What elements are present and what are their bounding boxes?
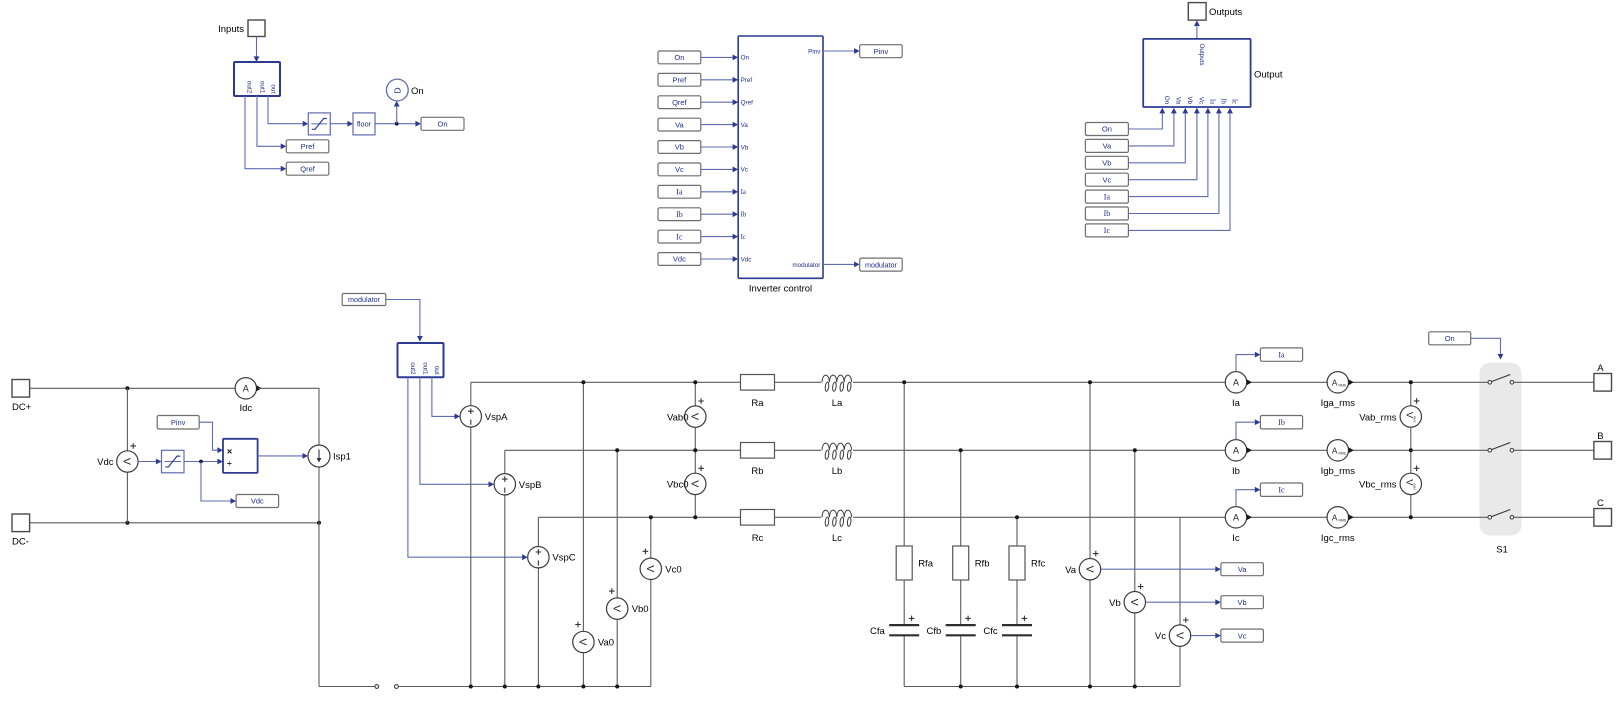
junction bus / Va meter: [1088, 685, 1092, 689]
ground bus middle segment: [398, 686, 651, 688]
svg-text:A: A: [1332, 513, 1338, 522]
junction after floor: [395, 122, 399, 126]
wire Ic to Output block port: [1128, 108, 1233, 231]
arrow into On tag: [415, 121, 421, 127]
svg-text:RMS: RMS: [1339, 384, 1347, 388]
goto tag Pref: [286, 140, 329, 153]
svg-text:La: La: [832, 398, 843, 409]
wire divide to Isp1: [258, 453, 309, 459]
voltmeter Va0: [573, 622, 614, 653]
wire Ia meter to tag: [1236, 352, 1260, 372]
goto tag Qref: [286, 162, 329, 175]
svg-text:Va: Va: [1103, 142, 1112, 151]
svg-text:Igc_rms: Igc_rms: [1321, 533, 1355, 544]
arrow into divide lower input: [217, 459, 223, 465]
wire VspA bottom: [470, 427, 472, 687]
rms ammeter Igb_rms: [1321, 440, 1356, 477]
svg-text:Ib: Ib: [1278, 418, 1285, 427]
wire switch to port A: [1514, 381, 1594, 383]
svg-text:Vb: Vb: [675, 143, 684, 152]
svg-text:Inputs: Inputs: [218, 24, 244, 35]
svg-text:Vab_rms: Vab_rms: [1359, 412, 1397, 423]
svg-text:Va0: Va0: [598, 638, 614, 649]
capacitor Cfa: [870, 616, 919, 637]
switch S1 contacts and blades: [1488, 375, 1514, 556]
svg-text:out1: out1: [422, 362, 429, 375]
from tag modulator: [342, 294, 386, 306]
svg-text:On: On: [1445, 334, 1455, 343]
floor block: [353, 113, 375, 135]
svg-text:RMS: RMS: [1412, 483, 1416, 490]
svg-text:V: V: [121, 458, 133, 465]
svg-text:Isp1: Isp1: [333, 452, 351, 463]
wire Pref into inverter control: [701, 77, 738, 83]
svg-text:Qref: Qref: [741, 100, 753, 107]
svg-text:On: On: [674, 53, 684, 62]
voltmeter Vbc0: [667, 466, 706, 495]
wire Isp1 down to ground bus: [318, 467, 320, 687]
junction DC- / Isp1: [317, 521, 321, 525]
svg-text:Ia: Ia: [1278, 350, 1285, 359]
svg-text:Vb: Vb: [1102, 159, 1111, 168]
svg-text:A: A: [243, 384, 249, 394]
svg-text:A: A: [1233, 378, 1239, 388]
resistor Rfb: [953, 546, 990, 580]
subsystem Output: [1143, 39, 1283, 107]
port DC+: [12, 380, 32, 413]
junction bus / Cfb: [959, 685, 963, 689]
wire DC+ to ammeter Idc: [30, 387, 236, 389]
wire Ia to Output block port: [1128, 108, 1210, 197]
svg-text:Va: Va: [741, 122, 749, 129]
phase B wire: [505, 449, 1488, 451]
wire Vdc meter branch bottom: [126, 472, 128, 523]
svg-text:Igb_rms: Igb_rms: [1321, 466, 1356, 477]
junction phase A / Rfa: [902, 380, 906, 384]
svg-text:Va: Va: [1065, 565, 1077, 576]
wire Va meter to tag: [1101, 566, 1221, 572]
goto tag Pinv: [860, 45, 903, 58]
svg-text:Rfc: Rfc: [1031, 559, 1046, 570]
capacitor Cfb: [927, 616, 976, 637]
svg-text:÷: ÷: [227, 458, 232, 468]
svg-text:D: D: [393, 87, 403, 93]
svg-text:Vb: Vb: [741, 144, 749, 151]
rms ammeter Igc_rms: [1321, 507, 1355, 544]
subsystem Inverter control: [738, 36, 823, 294]
svg-text:Pref: Pref: [673, 76, 688, 85]
svg-text:A: A: [1332, 446, 1338, 455]
from tag Ia (output column): [1085, 190, 1128, 203]
svg-text:Vc: Vc: [1238, 631, 1247, 640]
from tag Vb (output column): [1085, 156, 1128, 169]
svg-text:Rfa: Rfa: [918, 559, 934, 570]
wire VspB bottom: [504, 495, 506, 687]
svg-text:Vab0: Vab0: [667, 412, 688, 423]
svg-text:DC-: DC-: [12, 536, 29, 547]
svg-text:V: V: [644, 565, 656, 572]
svg-text:VspA: VspA: [485, 412, 508, 423]
svg-text:Vb0: Vb0: [632, 604, 649, 615]
wire Va meter branch: [1089, 382, 1091, 686]
goto tag Va: [1221, 563, 1264, 576]
wire Va into inverter control: [701, 122, 738, 128]
wire Vc0 branch: [650, 517, 652, 686]
svg-text:Ia: Ia: [1104, 192, 1111, 201]
junction DC+ / Vdc branch: [125, 386, 129, 390]
rms voltmeter Vbc_rms: [1359, 466, 1421, 495]
svg-text:Ia: Ia: [676, 188, 683, 197]
svg-text:RMS: RMS: [1339, 519, 1347, 523]
from tag Pref (inverter control input): [658, 73, 701, 86]
junction bus / VspB: [503, 685, 507, 689]
wire Ic into inverter control: [701, 234, 738, 240]
port DC-: [12, 514, 30, 547]
wire junction to Vdc tag: [201, 462, 236, 504]
from tag Ib (output column): [1085, 207, 1128, 220]
controlled voltage source VspA: [460, 406, 508, 427]
wire Cfb bottom: [960, 635, 962, 686]
svg-text:On: On: [741, 55, 750, 62]
wire Ib to Output block port: [1128, 108, 1221, 214]
voltmeter Vdc: [97, 443, 138, 472]
from tag Ic (output column): [1085, 224, 1128, 237]
port A: [1594, 363, 1612, 391]
goto tag Ia: [1260, 348, 1302, 361]
wire junction up to scope On: [396, 105, 398, 124]
junction phase A / Vab0: [693, 380, 697, 384]
svg-text:Vbc_rms: Vbc_rms: [1359, 480, 1397, 491]
junction bus / VspC: [536, 685, 540, 689]
svg-text:Va: Va: [1175, 97, 1182, 105]
from tag On (inverter control input): [658, 51, 701, 64]
svg-text:On: On: [1163, 96, 1170, 105]
wire Vc meter to tag: [1191, 633, 1221, 639]
svg-text:Vb: Vb: [1238, 598, 1247, 607]
svg-text:Ib: Ib: [1104, 209, 1111, 218]
controlled voltage source VspB: [494, 474, 541, 495]
from tag Ia (inverter control input): [658, 185, 701, 198]
svg-text:Lb: Lb: [832, 466, 843, 477]
svg-text:Ib: Ib: [676, 210, 683, 219]
svg-text:out1: out1: [258, 81, 265, 94]
junction bus / Vb0: [615, 685, 619, 689]
wire Va0 branch: [582, 382, 584, 686]
svg-text:RMS: RMS: [1412, 416, 1416, 423]
junction phase B / Vab0-Vbc0: [693, 448, 697, 452]
wire Ib into inverter control: [701, 211, 738, 217]
svg-text:Pref: Pref: [741, 77, 753, 84]
svg-text:Ic: Ic: [676, 232, 683, 241]
ammeter Ib: [1225, 440, 1252, 477]
from tag Vdc (inverter control input): [658, 253, 701, 266]
inductor Lb: [821, 442, 853, 477]
svg-text:Inverter control: Inverter control: [749, 283, 812, 294]
junction phase C / Vbc_rms: [1409, 515, 1413, 519]
current source Isp1: [308, 445, 351, 467]
svg-text:out2: out2: [409, 362, 416, 375]
wire Ib meter to tag: [1236, 419, 1260, 439]
svg-text:A: A: [1332, 378, 1338, 387]
svg-text:Vc0: Vc0: [665, 564, 681, 575]
svg-text:Pref: Pref: [301, 142, 316, 151]
svg-text:V: V: [577, 638, 589, 645]
junction DC- / Vdc branch: [125, 521, 129, 525]
svg-text:RMS: RMS: [1339, 452, 1347, 456]
goto tag Vc: [1221, 629, 1264, 642]
arrow into Qref tag: [281, 166, 287, 172]
svg-text:out: out: [433, 366, 440, 375]
svg-text:Vdc: Vdc: [741, 256, 752, 263]
svg-text:V: V: [1083, 566, 1095, 573]
wire Rfc branch: [1016, 517, 1018, 625]
svg-text:Vdc: Vdc: [97, 457, 114, 468]
svg-text:Ic: Ic: [1232, 533, 1240, 544]
from tag Qref (inverter control input): [658, 96, 701, 109]
svg-text:A: A: [1597, 363, 1604, 374]
junction phase A / Va0: [581, 380, 585, 384]
svg-text:Ic: Ic: [1278, 485, 1285, 494]
wire Rfa branch: [903, 382, 905, 625]
resistor Rb: [741, 443, 775, 477]
wire Pinv output: [823, 48, 860, 54]
wire Vc to Output block port: [1128, 108, 1199, 180]
svg-text:C: C: [1597, 498, 1604, 509]
wire Vdc into inverter control: [701, 256, 738, 262]
svg-text:out: out: [270, 84, 277, 93]
svg-text:Vb: Vb: [1186, 96, 1193, 104]
wire On tag to switch S1: [1471, 338, 1504, 359]
svg-text:Idc: Idc: [239, 403, 252, 414]
wire Vc into inverter control: [701, 167, 738, 173]
wire Ic meter to tag: [1236, 487, 1260, 507]
junction phase B / Rfb: [959, 448, 963, 452]
port Inputs: [218, 20, 265, 37]
svg-text:Rfb: Rfb: [975, 559, 990, 570]
rms ammeter Iga_rms: [1321, 372, 1356, 409]
svg-text:modulator: modulator: [865, 260, 898, 269]
demux block (modulator out, out1, out2): [398, 343, 444, 377]
junction phase A / Vab_rms: [1409, 380, 1413, 384]
from tag Ic (inverter control input): [658, 230, 701, 243]
svg-text:On: On: [1102, 125, 1112, 134]
arrow into floor: [347, 121, 353, 127]
svg-text:B: B: [1597, 431, 1603, 442]
svg-text:Cfc: Cfc: [983, 626, 998, 637]
wire Cfa bottom: [903, 635, 905, 686]
svg-text:V: V: [1128, 599, 1140, 606]
svg-text:Ic: Ic: [1231, 99, 1238, 104]
from tag Va (inverter control input): [658, 118, 701, 131]
svg-text:Pinv: Pinv: [874, 47, 889, 56]
goto tag Ib: [1260, 416, 1302, 429]
svg-text:Ib: Ib: [1232, 466, 1240, 477]
from tag Vb (inverter control input): [658, 141, 701, 154]
svg-text:modulator: modulator: [348, 295, 381, 304]
wire modulator to demux: [386, 300, 423, 342]
wire out1 to Pref tag: [257, 96, 281, 146]
port B: [1594, 431, 1612, 459]
phase C wire: [538, 516, 1488, 518]
svg-text:Pinv: Pinv: [808, 49, 821, 56]
wire out to saturation: [268, 96, 303, 124]
svg-text:Qref: Qref: [672, 98, 688, 107]
wire Pinv tag to divide upper input: [199, 422, 223, 453]
svg-text:S1: S1: [1496, 545, 1508, 556]
junction bus / Va0: [581, 685, 585, 689]
svg-text:Vc: Vc: [1103, 175, 1112, 184]
svg-text:A: A: [1233, 513, 1239, 523]
svg-text:Va: Va: [1238, 565, 1247, 574]
junction Vdc signal: [199, 460, 203, 464]
junction phase C / Rfc: [1015, 515, 1019, 519]
wire Vbc_rms branch: [1410, 450, 1412, 517]
goto tag Vdc: [236, 495, 279, 508]
svg-text:Vc: Vc: [675, 165, 684, 174]
svg-text:Cfa: Cfa: [870, 626, 886, 637]
goto tag On: [421, 117, 464, 130]
ammeter Ia: [1225, 372, 1252, 409]
svg-text:Vdc: Vdc: [673, 255, 686, 264]
wire Vdc meter to saturation: [138, 459, 161, 465]
wire Vbc0 branch: [694, 450, 696, 517]
svg-text:Vc: Vc: [741, 167, 748, 174]
wire out2 to Qref tag: [245, 96, 281, 169]
wire Idc to Isp1 vertical: [259, 388, 320, 445]
saturation block (Vdc): [162, 450, 185, 473]
wire VspC top: [537, 517, 539, 546]
inductor Lc: [821, 509, 853, 544]
wire VspC bottom: [537, 568, 539, 687]
resistor Rfc: [1009, 546, 1046, 580]
goto tag Vb: [1221, 596, 1264, 609]
from tag On (switch): [1429, 332, 1471, 345]
wire VspB top: [504, 450, 506, 474]
wire modulator output: [823, 262, 860, 268]
wire switch to port B: [1514, 449, 1594, 451]
wire On into inverter control: [701, 55, 738, 61]
phase A wire: [471, 381, 1488, 383]
ammeter Ic: [1225, 507, 1252, 544]
svg-text:Ic: Ic: [741, 234, 746, 241]
ammeter Idc: [235, 378, 262, 414]
voltmeter Vc: [1155, 617, 1191, 646]
junction phase C / Vbc0: [693, 515, 697, 519]
svg-text:V: V: [611, 605, 623, 612]
svg-text:On: On: [411, 86, 424, 97]
port C: [1594, 498, 1612, 526]
voltmeter Vc0: [640, 549, 682, 580]
inductor La: [821, 374, 853, 409]
svg-text:Outputs: Outputs: [1198, 44, 1205, 66]
wire Vb0 branch: [616, 450, 618, 686]
resistor Rc: [741, 510, 775, 544]
wire out1 to VspB: [420, 377, 494, 487]
wire Vab0 branch: [694, 382, 696, 450]
from tag Va (output column): [1085, 139, 1128, 152]
svg-text:Rc: Rc: [752, 533, 764, 544]
svg-text:VspB: VspB: [519, 480, 542, 491]
wire out2 to VspC: [408, 377, 528, 560]
resistor Ra: [741, 375, 775, 409]
wire Vab_rms branch: [1410, 382, 1412, 450]
junction bus / Vb meter: [1133, 685, 1137, 689]
svg-text:Ic: Ic: [1104, 226, 1111, 235]
junction bus / VspA: [469, 685, 473, 689]
svg-text:Vc: Vc: [1155, 631, 1166, 642]
goto tag Ic: [1260, 483, 1302, 496]
wire Ia into inverter control: [701, 189, 738, 195]
scope On (display D): [386, 79, 423, 101]
svg-text:Ib: Ib: [741, 212, 747, 219]
wire switch to port C: [1514, 516, 1594, 518]
svg-text:DC+: DC+: [12, 402, 32, 413]
svg-text:Vdc: Vdc: [251, 497, 264, 506]
wire Vb to Output block port: [1128, 108, 1188, 163]
svg-text:Pinv: Pinv: [171, 418, 186, 427]
junction phase B / rms meters: [1409, 448, 1413, 452]
wire Cfc bottom: [1016, 635, 1018, 686]
svg-text:Vbc0: Vbc0: [667, 480, 689, 491]
arrow into saturation: [303, 121, 309, 127]
wire Va to Output block port: [1128, 108, 1176, 146]
wire saturation to floor: [330, 123, 347, 125]
port Outputs: [1188, 3, 1242, 21]
svg-text:Vb: Vb: [1109, 598, 1121, 609]
controlled voltage source VspC: [528, 547, 576, 568]
svg-text:out2: out2: [246, 81, 253, 94]
wire Vdc meter branch top: [126, 388, 128, 451]
svg-text:Cfb: Cfb: [927, 626, 942, 637]
svg-text:Qref: Qref: [300, 164, 316, 173]
from tag Pinv: [157, 416, 199, 430]
voltmeter Va: [1065, 551, 1101, 580]
svg-text:floor: floor: [357, 120, 372, 129]
junction bus / Cfc: [1015, 685, 1019, 689]
wire VspA top: [470, 382, 472, 406]
from tag Ib (inverter control input): [658, 208, 701, 221]
wire floor to On tag: [375, 123, 416, 125]
voltmeter Vb0: [607, 588, 649, 619]
svg-text:A: A: [1233, 446, 1239, 456]
junction phase B / Vb meter: [1133, 448, 1137, 452]
wire out to VspA: [432, 377, 460, 419]
svg-text:Lc: Lc: [832, 533, 842, 544]
rms voltmeter Vab_rms: [1359, 398, 1421, 427]
svg-text:V: V: [689, 480, 701, 487]
wire Vb into inverter control: [701, 144, 738, 150]
wire saturation to divide: [184, 461, 218, 463]
goto tag modulator: [860, 258, 903, 271]
svg-text:Outputs: Outputs: [1209, 7, 1243, 18]
voltmeter Vb: [1109, 584, 1145, 613]
svg-text:Ib: Ib: [1220, 99, 1227, 105]
voltmeter Vab0: [667, 398, 706, 427]
from tag Vc (output column): [1085, 173, 1128, 186]
svg-text:VspC: VspC: [552, 553, 575, 564]
open terminal right: [395, 685, 399, 689]
svg-text:On: On: [437, 120, 447, 129]
wire On to Output block port: [1128, 108, 1165, 129]
svg-text:Ia: Ia: [1232, 398, 1241, 409]
junction phase C / Vc0: [649, 515, 653, 519]
svg-text:Ia: Ia: [741, 189, 746, 196]
svg-text:×: ×: [227, 447, 233, 458]
saturation block: [308, 113, 330, 135]
wire Vb meter to tag: [1146, 599, 1221, 605]
svg-text:Ra: Ra: [751, 398, 764, 409]
svg-text:Va: Va: [675, 120, 684, 129]
